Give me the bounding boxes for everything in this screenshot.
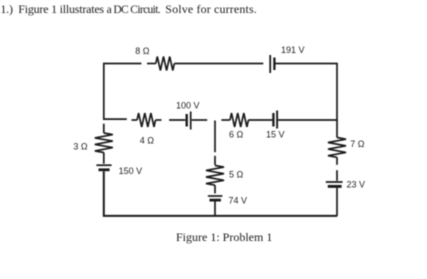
battery 74V long thin plate — [208, 195, 223, 197]
wire R6 to 15V battery — [248, 119, 272, 121]
resistor R 3ohm zigzag vertical — [95, 133, 113, 153]
svg-text:23 V: 23 V — [347, 180, 366, 190]
svg-text:74 V: 74 V — [229, 195, 248, 205]
title text — [0, 2, 257, 17]
svg-text:8 Ω: 8 Ω — [135, 46, 150, 56]
battery 15V short thick plate — [272, 113, 274, 127]
battery 74V short thick plate — [210, 199, 221, 202]
wire 15V to right vertical — [278, 119, 337, 121]
svg-text:191 V: 191 V — [281, 45, 305, 55]
wire 23V stem to bottom wire — [336, 188, 338, 216]
wire 7ohm bottom lead — [336, 157, 338, 165]
svg-text:6 Ω: 6 Ω — [229, 130, 244, 140]
wire lead into 23V battery — [336, 170, 338, 181]
wire right vertical to R 7ohm — [336, 120, 338, 138]
wire 5ohm top lead — [214, 156, 216, 165]
wire 100V to junction — [192, 119, 208, 121]
wire lead into R 4ohm — [132, 119, 138, 121]
resistor R 8ohm zigzag — [156, 57, 175, 71]
wire into 100V battery — [169, 119, 185, 121]
resistor R 5ohm zigzag vertical — [206, 166, 224, 186]
battery 150V short thick plate — [99, 168, 110, 171]
wire R4 right lead — [156, 119, 162, 121]
wire top lead into R 8ohm — [147, 63, 156, 65]
wire top-left corner and left vertical — [104, 64, 142, 121]
wire 3ohm bottom lead — [103, 153, 105, 164]
svg-text:7 Ω: 7 Ω — [350, 139, 365, 149]
resistor R 4ohm zigzag — [137, 113, 155, 127]
wire 150V stem to bottom-left corner and bottom wire — [104, 171, 337, 216]
wire middle branch left segment — [104, 118, 127, 120]
figure caption — [176, 230, 272, 245]
wire from 8ohm to 191V battery — [174, 63, 263, 65]
svg-text:3 Ω: 3 Ω — [73, 142, 88, 152]
battery 191V long plate — [269, 55, 271, 73]
battery 100V long thin plate — [190, 112, 192, 130]
svg-text:4 Ω: 4 Ω — [140, 135, 155, 145]
battery 191V short plate — [273, 58, 275, 71]
svg-text:100 V: 100 V — [176, 101, 200, 111]
battery 23V long thin plate — [326, 181, 343, 183]
resistor R 6ohm zigzag — [230, 113, 248, 127]
wire 191V to top-right corner and right vertical — [276, 64, 338, 121]
battery 100V short thick plate — [185, 114, 187, 127]
battery 150V long thin plate — [96, 164, 111, 166]
wire 3ohm top lead — [103, 124, 105, 133]
wire 5ohm bottom lead — [214, 185, 216, 193]
svg-text:15 V: 15 V — [266, 130, 285, 140]
svg-text:5 Ω: 5 Ω — [229, 170, 244, 180]
svg-text:150 V: 150 V — [119, 166, 143, 176]
wire 74V stem to bottom wire — [214, 202, 216, 216]
battery 23V short thick plate — [328, 185, 342, 188]
battery 15V long thin plate — [276, 111, 278, 129]
resistor R 7ohm zigzag vertical — [328, 138, 346, 158]
wire junction to R 6ohm — [221, 119, 230, 121]
wire middle vertical from junction — [214, 121, 216, 153]
